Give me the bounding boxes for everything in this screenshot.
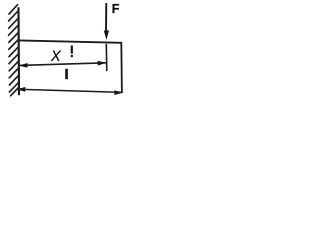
label l <box>65 69 68 79</box>
dimension line x <box>19 61 107 68</box>
right extension vertical line <box>120 42 123 93</box>
dimension line l <box>16 87 123 95</box>
wall hatching <box>9 5 19 96</box>
svg-text:F: F <box>112 2 120 16</box>
force F arrow <box>104 3 109 40</box>
tick glyph after x <box>71 45 74 57</box>
force line extension below beam <box>105 44 108 71</box>
wall support vertical line <box>17 7 20 95</box>
svg-text:x: x <box>50 45 62 66</box>
beam line <box>19 40 122 42</box>
